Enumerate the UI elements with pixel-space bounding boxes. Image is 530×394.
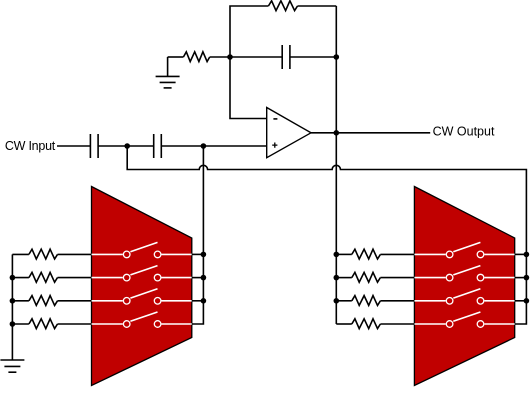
- svg-text:CW Input: CW Input: [5, 139, 56, 153]
- svg-text:CW Output: CW Output: [433, 125, 495, 139]
